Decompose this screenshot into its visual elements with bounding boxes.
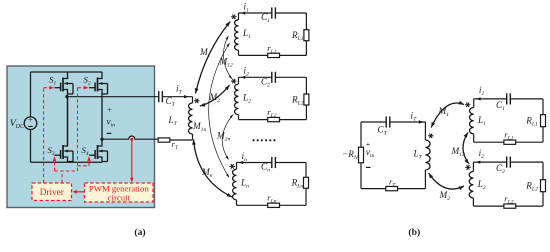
current arrow i2 (b) bbox=[476, 161, 480, 164]
label M1 (b) bbox=[438, 106, 450, 118]
dot marker LT (a) bbox=[194, 98, 199, 103]
wire loop T top (b) bbox=[361, 121, 425, 123]
wire loop 1 top (b) bbox=[474, 98, 543, 100]
label Ln bbox=[240, 178, 249, 190]
svg-text:M1​: M1​ bbox=[438, 106, 450, 118]
current arrow iT (b) bbox=[419, 120, 424, 123]
svg-text:(a): (a) bbox=[134, 227, 145, 238]
svg-text:+: + bbox=[107, 106, 112, 115]
resistor RL2 (b) bbox=[541, 180, 546, 192]
dot marker LT (b) bbox=[428, 133, 433, 138]
dot marker L1 bbox=[231, 14, 236, 19]
inductor L1 (b) bbox=[470, 108, 474, 134]
svg-text:C1​: C1​ bbox=[261, 12, 270, 24]
wire CT to LT (a) bbox=[162, 97, 192, 103]
svg-text:RL2​: RL2​ bbox=[525, 181, 538, 193]
capacitor CT (a) bbox=[159, 91, 163, 102]
label C2 bbox=[261, 77, 270, 89]
gate drive S2 (red dashed) bbox=[78, 86, 89, 171]
label Driver bbox=[40, 187, 64, 197]
resistor RL1 bbox=[304, 30, 309, 41]
label L2 (b) bbox=[477, 179, 486, 191]
svg-text:in​: in​ bbox=[242, 151, 248, 163]
wire loop 2 top (b) bbox=[473, 161, 543, 163]
svg-text:RLn​: RLn​ bbox=[291, 178, 304, 190]
wire LT down (a) bbox=[170, 134, 193, 140]
label LT (a) bbox=[168, 115, 178, 127]
label M1 bbox=[199, 47, 211, 59]
capacitor CT (b) bbox=[386, 116, 390, 127]
caption (b) bbox=[408, 227, 420, 238]
mutual Mn arc bbox=[192, 140, 232, 198]
svg-text:rT​: rT​ bbox=[172, 139, 179, 151]
current arrow in bbox=[239, 161, 243, 164]
wire loop n left bbox=[236, 163, 238, 206]
ellipsis dots bbox=[252, 139, 275, 141]
label -RN bbox=[342, 149, 359, 161]
transistor S1 bbox=[55, 72, 74, 97]
label - (b) bbox=[366, 166, 371, 168]
transistor S4 bbox=[89, 139, 108, 162]
resistor rL2 (b) bbox=[504, 204, 516, 208]
caption (a) bbox=[134, 227, 145, 238]
resistor rL1 bbox=[268, 53, 280, 57]
DC source VDC bbox=[24, 72, 37, 162]
wire top rail bbox=[31, 71, 103, 73]
dot marker Ln bbox=[230, 164, 235, 169]
label C1 (b) bbox=[496, 100, 505, 112]
capacitor C1 bbox=[272, 7, 276, 18]
svg-text:CT​: CT​ bbox=[166, 96, 176, 108]
label Cn bbox=[261, 162, 270, 174]
wire loop n top bbox=[237, 162, 307, 164]
wire loop 2 top bbox=[239, 76, 307, 78]
label Mn bbox=[201, 167, 213, 179]
label M12 (b) bbox=[451, 146, 466, 158]
wire loop 1 bottom bbox=[239, 54, 307, 56]
svg-text:C1​: C1​ bbox=[496, 100, 505, 112]
svg-text:RL2​: RL2​ bbox=[291, 94, 304, 106]
label vin bbox=[107, 117, 116, 129]
svg-text:M2​: M2​ bbox=[439, 190, 451, 202]
label rL1 (b) bbox=[504, 130, 513, 142]
resistor rL2 bbox=[268, 117, 280, 121]
mutual M1 arc (b) bbox=[431, 101, 464, 128]
wire loop n right bbox=[305, 163, 307, 206]
mutual M12 arc (b) bbox=[463, 133, 469, 165]
svg-text:LT​: LT​ bbox=[413, 149, 423, 161]
node A junction bbox=[65, 95, 68, 98]
driver box bbox=[32, 183, 72, 201]
label S4 bbox=[81, 145, 88, 157]
label iT (b) bbox=[411, 110, 418, 122]
label vin (b) bbox=[366, 147, 375, 159]
wire loop 2 bottom (b) bbox=[473, 205, 543, 207]
current arrow i1 bbox=[241, 11, 245, 14]
wire loop 1 left bbox=[238, 13, 240, 55]
resistor rT (b) bbox=[386, 186, 398, 190]
mutual M1n arc bbox=[209, 43, 230, 178]
label in bbox=[242, 151, 248, 163]
gate drive S3 (red dashed) bbox=[53, 156, 78, 183]
svg-text:M1​: M1​ bbox=[199, 47, 211, 59]
mutual M1 arc bbox=[195, 22, 230, 94]
resistor rL1 (b) bbox=[504, 140, 516, 144]
label S1 bbox=[49, 74, 56, 86]
svg-text:Cn​: Cn​ bbox=[261, 162, 270, 174]
inverter enclosure (blue box) bbox=[7, 66, 155, 208]
inductor L2 bbox=[235, 84, 239, 115]
capacitor C2 (b) bbox=[507, 157, 511, 168]
svg-text:LT​: LT​ bbox=[168, 115, 178, 127]
label RL1 bbox=[291, 30, 304, 42]
svg-text:Ln​: Ln​ bbox=[240, 178, 249, 190]
svg-text:RL1​: RL1​ bbox=[291, 30, 304, 42]
current arrow iT (a) bbox=[184, 95, 189, 98]
svg-text:i2​: i2​ bbox=[244, 66, 250, 78]
label CT (b) bbox=[378, 125, 388, 137]
wire LT (b) bbox=[424, 122, 426, 189]
resistor RL2 bbox=[304, 94, 309, 105]
label S2 bbox=[83, 74, 90, 86]
wire node B with hop bbox=[102, 136, 158, 139]
wire loop n bottom bbox=[237, 204, 307, 206]
vin sense tap (red) bbox=[130, 138, 134, 183]
label RL1 (b) bbox=[525, 116, 538, 128]
svg-text:+: + bbox=[28, 116, 33, 125]
label i2 (b) bbox=[479, 148, 485, 160]
label LT (b) bbox=[413, 149, 423, 161]
label i1 (b) bbox=[479, 85, 485, 97]
mutual M12 arc bbox=[223, 36, 231, 79]
label M1n bbox=[192, 121, 207, 133]
wire loop 2 right bbox=[305, 77, 307, 119]
inductor Ln bbox=[233, 169, 237, 200]
label + (vin) bbox=[107, 106, 112, 115]
current arrow i1 (b) bbox=[476, 97, 480, 100]
wire loop T bottom (b) bbox=[361, 188, 425, 190]
svg-text:i1​: i1​ bbox=[479, 85, 485, 97]
dot marker L2 (b) bbox=[465, 165, 470, 170]
svg-text:i1​: i1​ bbox=[244, 1, 250, 13]
wire loop 1 left (b) bbox=[473, 99, 475, 142]
resistor rLn bbox=[268, 203, 280, 207]
svg-text:L1​: L1​ bbox=[242, 28, 251, 40]
label - (vin) bbox=[107, 132, 112, 134]
wire loop 2 bottom bbox=[239, 119, 307, 121]
wire loop 2 right (b) bbox=[542, 162, 544, 206]
label rT (b) bbox=[389, 176, 396, 188]
svg-text:L2​: L2​ bbox=[477, 179, 486, 191]
label C1 bbox=[261, 12, 270, 24]
svg-text:−RN​: −RN​ bbox=[342, 149, 359, 161]
svg-text:M1n​: M1n​ bbox=[192, 121, 207, 133]
mutual M2n arc bbox=[222, 115, 233, 160]
label S3 bbox=[47, 145, 54, 157]
red arrow PWM to Driver bbox=[72, 190, 84, 194]
node B junction bbox=[100, 138, 103, 141]
wire loop 1 right (b) bbox=[542, 99, 544, 142]
label rL2 bbox=[267, 107, 276, 119]
svg-text:Driver: Driver bbox=[40, 187, 64, 197]
svg-text:M2n​: M2n​ bbox=[216, 131, 231, 143]
label M12 bbox=[219, 56, 234, 68]
label rT (a) bbox=[172, 139, 179, 151]
wire loop 2 left bbox=[238, 77, 240, 119]
label M2n bbox=[216, 131, 231, 143]
label iT (a) bbox=[176, 84, 183, 96]
inductor LT (b) bbox=[425, 140, 430, 170]
label i1 bbox=[244, 1, 250, 13]
inductor L2 (b) bbox=[469, 171, 473, 197]
label PWM generation circuit bbox=[89, 183, 149, 202]
transistor S3 bbox=[55, 97, 74, 163]
resistor RLn bbox=[304, 177, 309, 188]
current arrow i2 bbox=[241, 76, 245, 79]
label RLn bbox=[291, 178, 304, 190]
label M2 (b) bbox=[439, 190, 451, 202]
svg-text:iT​: iT​ bbox=[411, 110, 418, 122]
label CT (a) bbox=[166, 96, 176, 108]
svg-text:circuit: circuit bbox=[108, 193, 131, 203]
label rL2 (b) bbox=[504, 194, 513, 206]
svg-text:C2​: C2​ bbox=[261, 77, 270, 89]
capacitor C2 bbox=[272, 72, 276, 83]
PWM generation circuit box bbox=[85, 183, 154, 202]
wire loop 1 top bbox=[239, 12, 307, 14]
label VDC bbox=[10, 118, 25, 130]
svg-text:RL1​: RL1​ bbox=[525, 116, 538, 128]
mutual M2 arc (b) bbox=[429, 173, 464, 190]
inductor L1 bbox=[235, 20, 239, 51]
resistor rT (a) bbox=[158, 138, 170, 142]
label RL2 bbox=[291, 94, 304, 106]
label rLn bbox=[267, 193, 276, 205]
label M2 bbox=[209, 92, 221, 104]
svg-text:L2​: L2​ bbox=[242, 92, 251, 104]
svg-text:L1​: L1​ bbox=[477, 115, 486, 127]
svg-text:iT​: iT​ bbox=[176, 84, 183, 96]
label L1 bbox=[242, 28, 251, 40]
label rL1 bbox=[267, 43, 276, 55]
gate drive S1 (red dashed) bbox=[44, 86, 54, 183]
capacitor C1 (b) bbox=[507, 93, 511, 104]
mutual M2 arc bbox=[200, 85, 230, 107]
negative resistance -RN bbox=[359, 122, 364, 189]
gate drive S4 (red dashed) bbox=[78, 156, 91, 166]
transistor S2 bbox=[89, 72, 108, 139]
label L1 (b) bbox=[477, 115, 486, 127]
label i2 bbox=[244, 66, 250, 78]
label RL2 (b) bbox=[525, 181, 538, 193]
inductor LT (a) bbox=[189, 103, 193, 134]
svg-text:C2​: C2​ bbox=[496, 163, 505, 175]
wire loop 1 bottom (b) bbox=[474, 141, 543, 143]
svg-text:(b): (b) bbox=[408, 227, 420, 238]
wire loop 1 right bbox=[305, 13, 307, 55]
wire node A to CT bbox=[68, 96, 159, 98]
label C2 (b) bbox=[496, 163, 505, 175]
wire loop 2 left (b) bbox=[472, 162, 474, 206]
capacitor Cn bbox=[272, 157, 276, 168]
svg-text:i2​: i2​ bbox=[479, 148, 485, 160]
dot marker L2 bbox=[231, 79, 236, 84]
label L2 bbox=[242, 92, 251, 104]
dot marker L1 (b) bbox=[465, 102, 470, 107]
wire bottom rail bbox=[31, 161, 103, 163]
resistor RL1 (b) bbox=[541, 115, 546, 127]
label + (b) bbox=[366, 139, 371, 149]
